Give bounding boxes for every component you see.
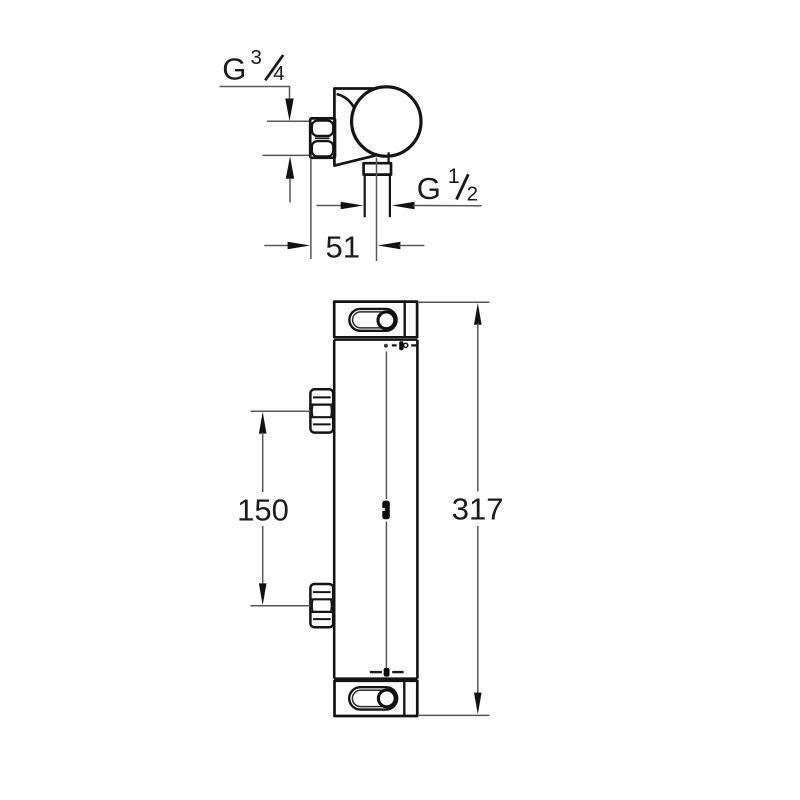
label G 3/4 xyxy=(222,46,284,87)
svg-text:1: 1 xyxy=(448,164,460,188)
dimension 51 xyxy=(264,245,289,247)
svg-text:2: 2 xyxy=(467,183,478,206)
top slot outer xyxy=(349,309,396,331)
bottom slot bold circle xyxy=(378,690,395,707)
bracket divider xyxy=(403,681,405,716)
valve body (side view) xyxy=(334,89,388,166)
svg-text:4: 4 xyxy=(273,62,284,85)
arrow down to nut top xyxy=(285,99,293,122)
svg-text:G: G xyxy=(417,171,441,206)
extension line for 51 (nut face) xyxy=(310,158,312,259)
top wall bracket xyxy=(334,302,417,338)
svg-text:317: 317 xyxy=(452,491,504,526)
center axis line of pipe xyxy=(376,158,378,262)
dimension 317 xyxy=(474,303,482,325)
extension line nut top xyxy=(267,120,311,122)
bottom inlet nut (front view) xyxy=(310,584,333,627)
bottom wall bracket xyxy=(335,681,418,716)
mid-bar mark xyxy=(382,501,390,520)
top dash-dot marker (screw axis) xyxy=(384,341,417,350)
arrow up to nut bottom xyxy=(286,156,294,179)
neck below circle xyxy=(388,152,390,163)
svg-text:3: 3 xyxy=(251,46,262,69)
bottom slot inner xyxy=(352,690,394,706)
arrow tail xyxy=(289,178,291,202)
extension line nut bottom xyxy=(263,154,312,156)
top slot bold circle xyxy=(378,312,395,329)
extension lines for 150 xyxy=(251,410,311,412)
label G 1/2 xyxy=(417,164,478,206)
svg-text:51: 51 xyxy=(325,230,359,265)
bottom slot outer xyxy=(349,687,397,709)
leader line from G 3/4 xyxy=(220,87,290,100)
hex nut side view (G 3/4 union) xyxy=(310,118,335,157)
extension lines for 317 xyxy=(419,301,490,303)
svg-text:150: 150 xyxy=(237,492,289,527)
top inlet nut (front view) xyxy=(310,389,333,432)
center line of bar xyxy=(385,352,387,500)
svg-text:G: G xyxy=(222,52,246,87)
pipe lines xyxy=(364,175,366,218)
body bar xyxy=(334,340,417,679)
outlet fitting rect (G 1/2) xyxy=(364,163,391,174)
body inner curve (knob barrel edge) xyxy=(337,94,357,114)
bracket divider xyxy=(404,302,406,338)
knob circle xyxy=(352,87,421,156)
dimension 150 xyxy=(259,412,267,434)
bottom center mark xyxy=(370,668,404,677)
G 1/2 dimension arrows xyxy=(317,205,343,207)
top slot inner xyxy=(353,312,394,328)
